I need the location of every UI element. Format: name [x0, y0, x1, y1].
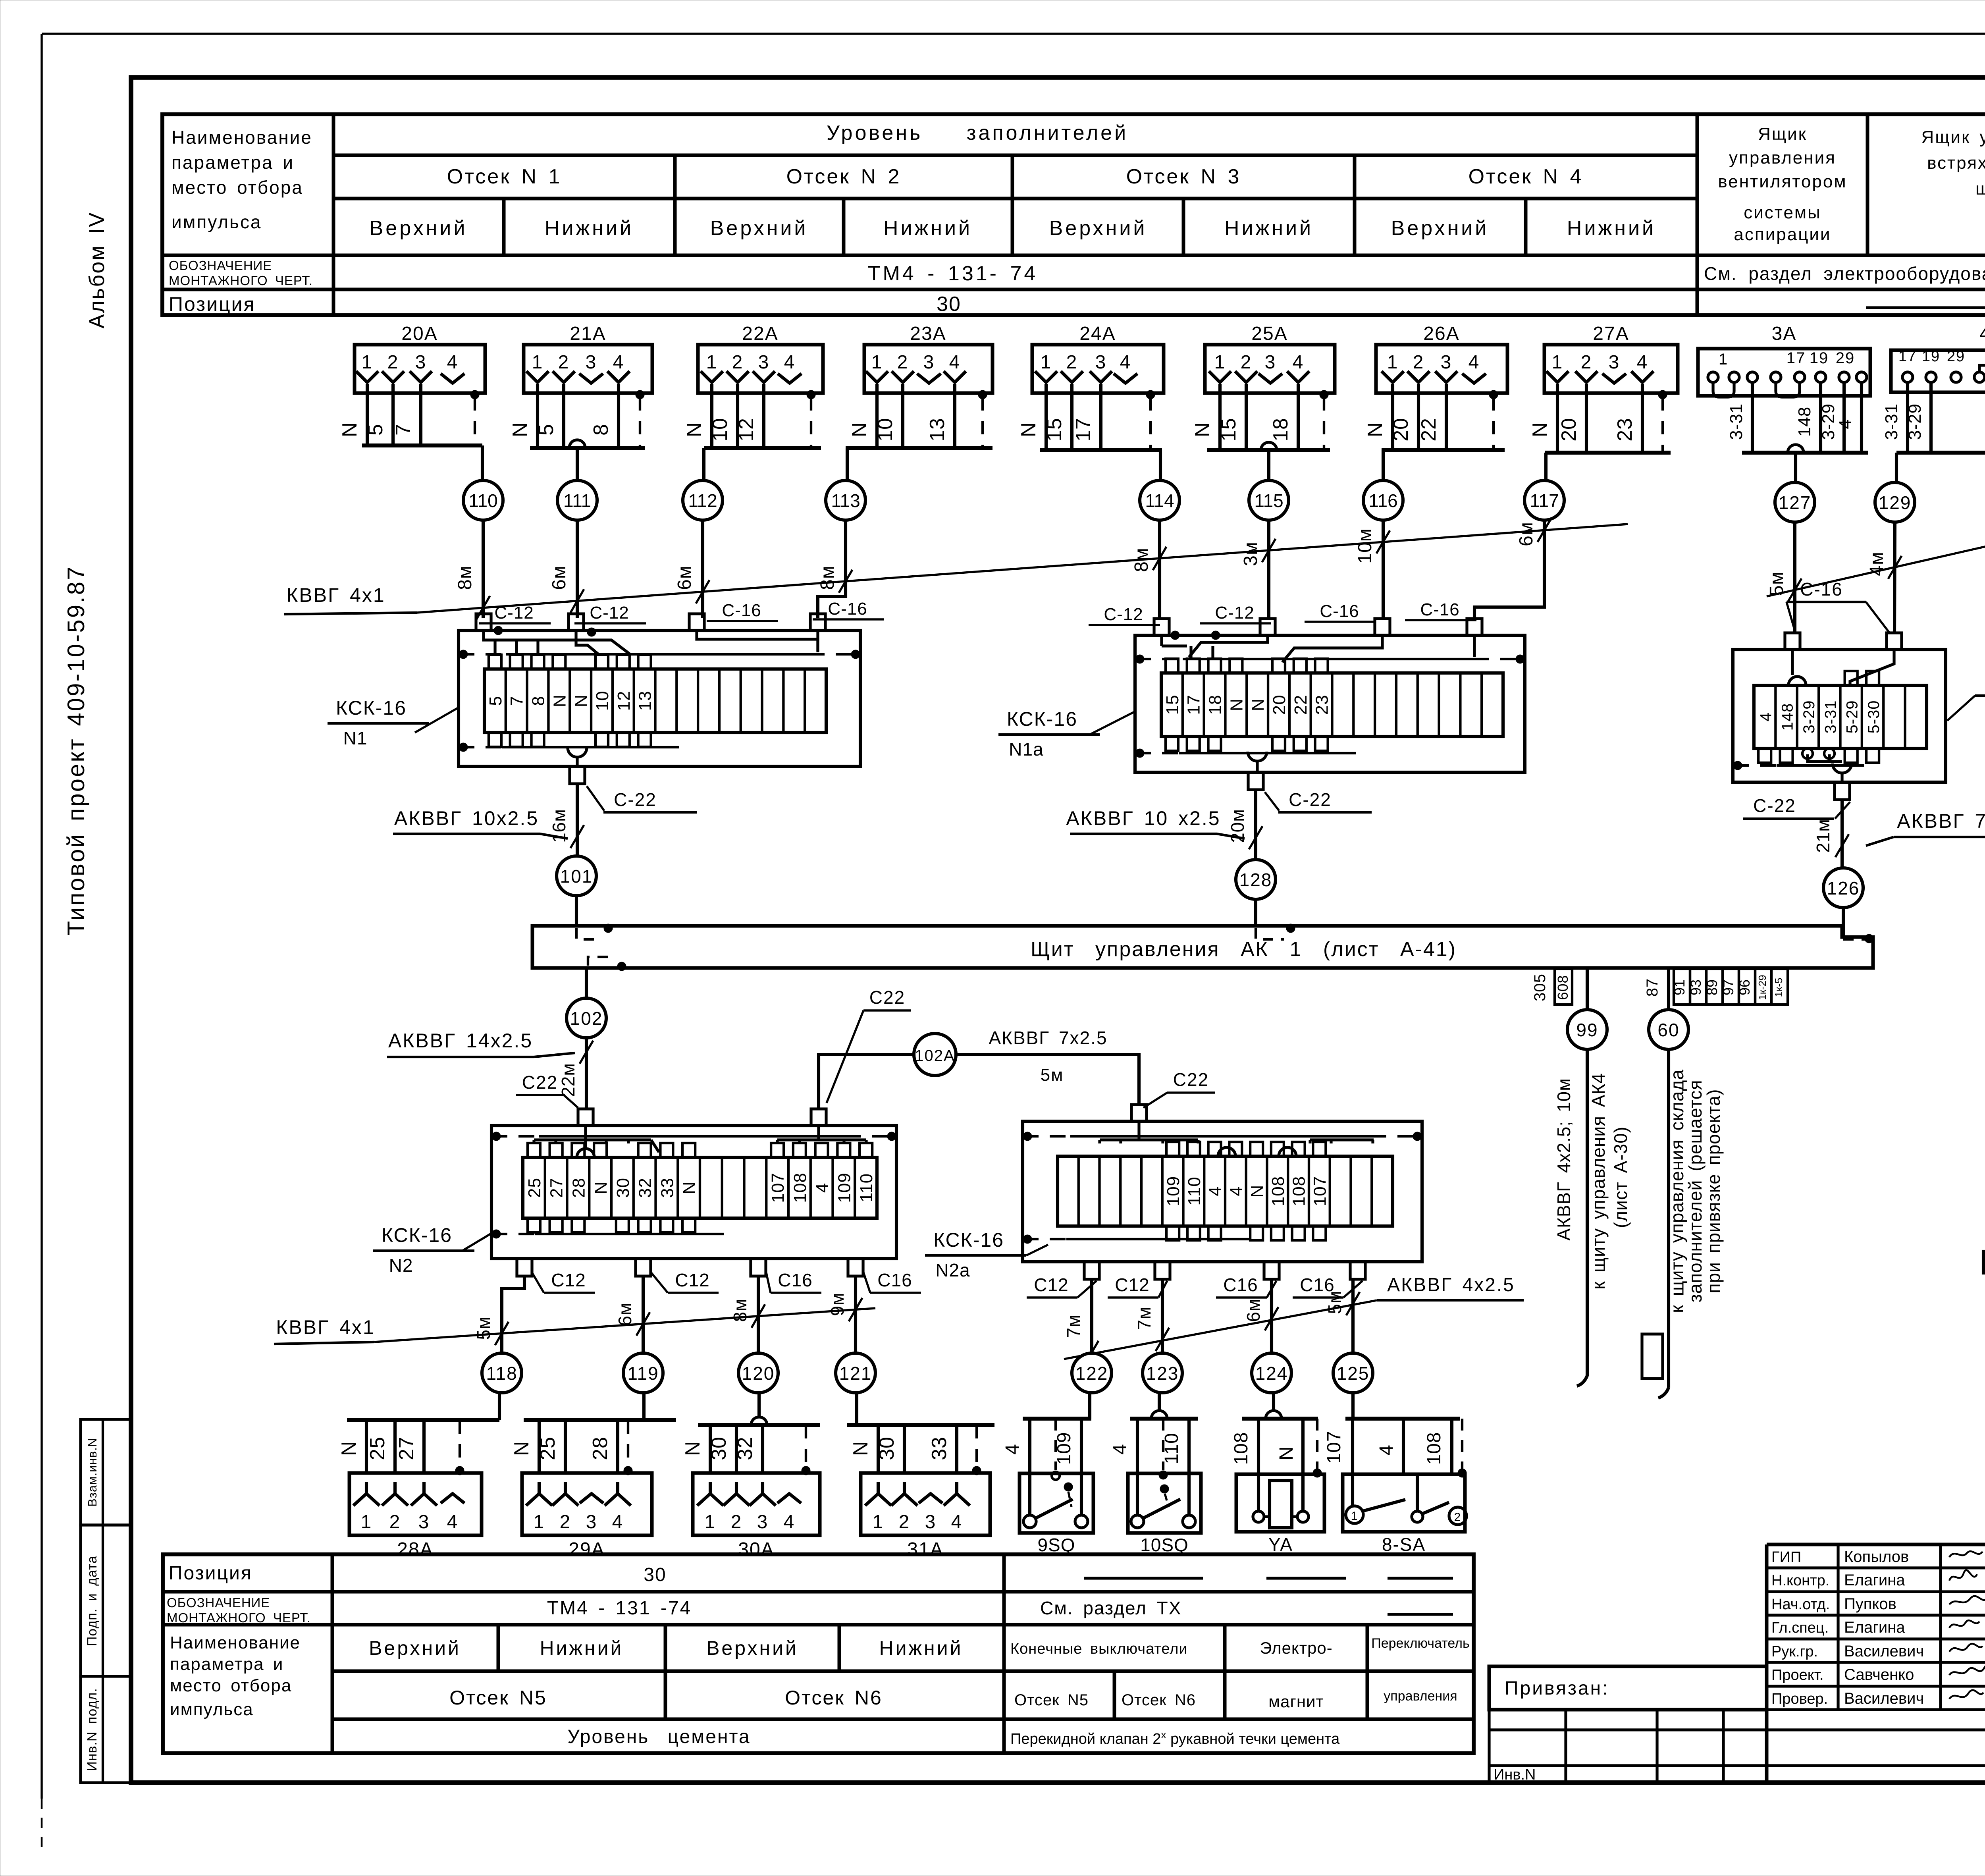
svg-text:10: 10	[709, 418, 732, 442]
svg-text:8м: 8м	[730, 1298, 750, 1322]
svg-text:С-16: С-16	[1320, 602, 1359, 621]
node 123	[1143, 1353, 1182, 1393]
svg-text:4: 4	[784, 1512, 795, 1533]
node 113	[826, 480, 865, 520]
connector box 30А	[693, 1473, 820, 1560]
title block: approvals column	[1771, 1548, 1985, 1707]
svg-text:Переключатель: Переключатель	[1371, 1636, 1469, 1651]
svg-text:115: 115	[1254, 490, 1283, 511]
svg-text:20: 20	[1389, 418, 1413, 442]
cable riser 29А	[642, 1393, 646, 1420]
svg-text:17: 17	[1898, 348, 1917, 365]
svg-text:Наименование: Наименование	[172, 127, 312, 148]
svg-text:См. раздел электрооборудован: См. раздел электрооборудования	[1704, 263, 1985, 284]
svg-text:аспирации: аспирации	[1734, 225, 1831, 244]
node 122	[1072, 1353, 1112, 1393]
cable riser 24А	[1159, 450, 1162, 480]
cable riser 25А	[1261, 442, 1277, 480]
labels along wire 60	[1667, 1069, 1724, 1313]
svg-text:17: 17	[1072, 418, 1095, 442]
svg-text:5м: 5м	[1766, 571, 1787, 596]
svg-text:Нижний: Нижний	[883, 217, 972, 240]
svg-text:С16: С16	[877, 1270, 912, 1290]
labels along wire 99	[1553, 1073, 1631, 1290]
svg-text:10: 10	[874, 418, 897, 442]
svg-text:Нижний: Нижний	[879, 1637, 963, 1659]
node 102А	[914, 1033, 956, 1076]
connector box 21А	[524, 323, 652, 395]
svg-text:29: 29	[1947, 348, 1965, 365]
wire 125 from junction box	[1324, 1279, 1360, 1353]
wire 102 to КСК-16 N2	[558, 1038, 593, 1108]
svg-text:N: N	[571, 694, 591, 708]
svg-text:28А: 28А	[397, 1539, 433, 1560]
svg-text:2: 2	[1413, 352, 1424, 373]
svg-text:3м: 3м	[1240, 542, 1261, 566]
svg-text:АКВВГ 14х2.5: АКВВГ 14х2.5	[388, 1030, 533, 1052]
svg-text:N: N	[550, 694, 569, 708]
svg-text:27А: 27А	[1593, 323, 1629, 344]
svg-text:121: 121	[839, 1363, 872, 1384]
connector box 28А	[349, 1473, 482, 1560]
dashed spare wire 25А	[1320, 390, 1328, 450]
svg-text:3: 3	[1609, 352, 1620, 373]
node 99	[1567, 1010, 1607, 1049]
svg-text:5: 5	[364, 424, 387, 436]
legend: blank rectangle symbol	[1983, 1251, 1985, 1311]
cable С-22 drop КСК-16 N1а	[1227, 789, 1372, 860]
svg-text:17: 17	[1786, 349, 1806, 367]
node 119	[623, 1353, 663, 1393]
svg-text:место отбора: место отбора	[170, 1676, 292, 1695]
svg-text:3: 3	[418, 1512, 430, 1533]
junction box КСК-16 N2 terminal strip	[523, 1157, 877, 1218]
wire tags 91 93 89 97 96 1к-29 1к-5	[1671, 969, 1788, 1005]
svg-text:107: 107	[1324, 1431, 1345, 1463]
svg-text:YA: YA	[1268, 1534, 1293, 1555]
cable label КВВГ 4х1 bottom	[274, 1308, 875, 1344]
svg-text:8: 8	[590, 424, 613, 436]
svg-text:N: N	[338, 422, 361, 438]
svg-text:Инв.N подл.: Инв.N подл.	[85, 1688, 100, 1771]
svg-text:N: N	[1276, 1446, 1297, 1460]
cable label АКВВГ 10х2.5 (N1а)	[1066, 807, 1245, 839]
svg-text:102А: 102А	[915, 1047, 955, 1064]
svg-text:Уровень заполнителей: Уровень заполнителей	[827, 121, 1128, 145]
junction box КСК-8 N3 terminal strip	[1754, 685, 1927, 748]
svg-text:3-29: 3-29	[1800, 700, 1818, 733]
svg-text:1: 1	[532, 352, 543, 373]
svg-text:место отбора: место отбора	[172, 177, 303, 198]
svg-text:6м: 6м	[674, 565, 695, 590]
svg-text:23: 23	[1613, 418, 1636, 442]
svg-text:12: 12	[735, 418, 758, 442]
svg-text:20: 20	[1557, 418, 1580, 442]
svg-text:1: 1	[1041, 352, 1052, 373]
svg-text:108: 108	[1231, 1432, 1252, 1465]
gland labels under КСК-16 N2а	[1027, 1274, 1363, 1298]
junction box КСК-16 N1а outline	[1135, 635, 1525, 772]
dashed spare wire 31А	[972, 1425, 981, 1475]
bottom glands КСК-16 N2	[517, 1259, 863, 1276]
svg-text:С16: С16	[1300, 1274, 1334, 1295]
wire 110 to junction box	[455, 520, 490, 619]
svg-text:Отсек N 1: Отсек N 1	[447, 165, 562, 188]
svg-text:Отсек N5: Отсек N5	[1014, 1691, 1089, 1709]
svg-text:заполнителей (решается: заполнителей (решается	[1685, 1080, 1706, 1302]
svg-text:4м: 4м	[1866, 551, 1887, 576]
svg-text:5: 5	[486, 696, 505, 706]
svg-text:109: 109	[1054, 1432, 1075, 1465]
label КСК-16 N2а	[925, 1229, 1048, 1280]
svg-text:Привязан:: Привязан:	[1505, 1678, 1609, 1699]
dashed spare wire 24А	[1146, 390, 1155, 450]
svg-text:89: 89	[1704, 979, 1720, 995]
svg-text:АКВВГ 10 х2.5: АКВВГ 10 х2.5	[1066, 807, 1220, 829]
selector switch 8-SA	[1324, 1393, 1467, 1555]
wires 26А to terminal bus	[1364, 393, 1505, 450]
svg-text:АКВВГ 4х2.5: АКВВГ 4х2.5	[1387, 1274, 1515, 1296]
svg-text:1: 1	[873, 1512, 884, 1533]
svg-text:30: 30	[875, 1436, 898, 1460]
svg-text:Проект.: Проект.	[1771, 1667, 1824, 1683]
svg-text:N: N	[849, 1441, 872, 1456]
svg-text:4: 4	[1120, 352, 1131, 373]
svg-text:4А-5А: 4А-5А	[1979, 323, 1985, 344]
cable riser 31А	[855, 1393, 858, 1425]
svg-text:3: 3	[1095, 352, 1107, 373]
svg-text:114: 114	[1145, 490, 1174, 511]
svg-text:30: 30	[613, 1178, 633, 1198]
svg-text:параметра и: параметра и	[172, 152, 294, 173]
svg-text:30: 30	[644, 1564, 666, 1585]
gland labels under КСК-16 N2	[532, 1270, 921, 1293]
node 121	[836, 1353, 875, 1393]
svg-text:Отсек N6: Отсек N6	[1122, 1691, 1196, 1709]
svg-text:22м: 22м	[558, 1063, 578, 1097]
wire 102А to КСК-16 N2а	[956, 1028, 1139, 1104]
top table header cell text	[172, 127, 312, 232]
junction box КСК-16 N1а earth rails	[1135, 631, 1525, 758]
svg-text:2: 2	[389, 1512, 401, 1533]
svg-text:4: 4	[1836, 419, 1855, 429]
svg-text:107: 107	[1310, 1176, 1330, 1206]
junction box КСК-16 N1а terminal strip	[1161, 673, 1503, 737]
label КСК-8 N3	[1947, 669, 1985, 721]
node 110	[463, 480, 503, 520]
svg-text:Елагина: Елагина	[1844, 1619, 1905, 1636]
svg-text:Верхний: Верхний	[710, 217, 808, 240]
svg-text:23А: 23А	[910, 323, 946, 344]
wires 21А to terminal bus	[509, 393, 645, 448]
junction box КСК-16 N2а outline	[1023, 1121, 1422, 1262]
svg-text:Взам.инв.N: Взам.инв.N	[85, 1438, 99, 1507]
svg-text:Верхний: Верхний	[706, 1637, 798, 1659]
dashed spare wire 21А	[636, 390, 644, 448]
project label	[63, 565, 89, 936]
svg-text:12: 12	[614, 691, 634, 711]
svg-text:25А: 25А	[1251, 323, 1287, 344]
wires 23А to terminal bus	[846, 393, 992, 448]
svg-text:Позиция: Позиция	[169, 1563, 252, 1584]
svg-text:параметра и: параметра и	[170, 1654, 283, 1674]
cable label АКВВГ 7х2.5 (N3)	[1866, 810, 1985, 846]
node 120	[738, 1353, 778, 1393]
svg-text:108: 108	[1289, 1176, 1309, 1206]
svg-text:116: 116	[1368, 490, 1397, 511]
dashed spare wire 28А	[455, 1420, 464, 1475]
svg-text:3: 3	[757, 1512, 769, 1533]
svg-text:15: 15	[1043, 418, 1066, 442]
svg-text:25: 25	[536, 1436, 559, 1460]
svg-text:8м: 8м	[1131, 548, 1152, 572]
svg-text:Типовой проект 409-10-59.87: Типовой проект 409-10-59.87	[63, 565, 89, 936]
svg-text:20: 20	[1270, 695, 1289, 715]
cable label АКВВГ 5х2.5	[1767, 520, 1985, 596]
top table see-electric note	[1704, 263, 1985, 284]
svg-text:119: 119	[627, 1363, 659, 1384]
svg-text:108: 108	[1424, 1432, 1445, 1465]
svg-text:к щиту управления АК4: к щиту управления АК4	[1588, 1073, 1609, 1290]
svg-text:15: 15	[1163, 695, 1182, 715]
node 101	[557, 856, 596, 926]
node 116	[1363, 480, 1403, 520]
connector box 29А	[522, 1473, 652, 1560]
svg-text:110: 110	[1185, 1176, 1204, 1205]
svg-text:91: 91	[1671, 979, 1688, 995]
connector box 23А	[864, 323, 992, 395]
svg-text:608: 608	[1555, 975, 1571, 1000]
svg-text:С-12: С-12	[1104, 605, 1143, 624]
label С22 (N2а gland)	[1143, 1069, 1215, 1108]
wire 120 from junction box	[730, 1276, 765, 1353]
svg-text:6м: 6м	[1516, 522, 1537, 546]
legend blank rectangle on wire 60 label	[1642, 1334, 1663, 1379]
bottom table header cell text	[167, 1563, 311, 1719]
stamp box Vzam.inv.N	[81, 1419, 131, 1525]
svg-text:33: 33	[657, 1178, 677, 1198]
wires 29А to terminal bus	[510, 1420, 676, 1473]
node dot 128 entry	[1256, 924, 1295, 939]
svg-text:123: 123	[1146, 1363, 1179, 1384]
svg-text:18: 18	[1206, 695, 1225, 715]
junction box КСК-16 N1 outline	[459, 630, 860, 766]
svg-text:Ящик управления: Ящик управления	[1921, 127, 1985, 147]
svg-text:Нач.отд.: Нач.отд.	[1771, 1596, 1830, 1613]
svg-text:ГИП: ГИП	[1771, 1549, 1801, 1566]
svg-text:4: 4	[949, 352, 961, 373]
wires 20А to terminal bus	[338, 393, 482, 445]
svg-text:С-16: С-16	[722, 601, 761, 620]
svg-text:117: 117	[1530, 490, 1559, 511]
top table blank mark	[1866, 306, 1985, 309]
wire 112 to junction box	[674, 520, 709, 618]
svg-text:N2а: N2а	[935, 1260, 970, 1280]
svg-text:19: 19	[1922, 348, 1940, 365]
svg-text:Верхний: Верхний	[1391, 217, 1489, 240]
svg-text:5м: 5м	[1041, 1065, 1064, 1085]
svg-text:Нижний: Нижний	[545, 217, 634, 240]
svg-text:1: 1	[362, 352, 373, 373]
svg-text:3: 3	[758, 352, 770, 373]
svg-text:1: 1	[1214, 352, 1226, 373]
svg-text:Савченко: Савченко	[1844, 1666, 1914, 1683]
svg-text:108: 108	[1268, 1176, 1288, 1206]
svg-text:Наименование: Наименование	[170, 1633, 301, 1652]
cable С-22 drop КСК-8	[1743, 795, 1850, 868]
svg-text:Копылов: Копылов	[1844, 1548, 1909, 1566]
svg-text:ТМ4 - 131 -74: ТМ4 - 131 -74	[547, 1598, 692, 1619]
dashed spare wire 27А	[1658, 390, 1667, 453]
wire 114 to junction box	[1131, 520, 1166, 618]
svg-text:1к-5: 1к-5	[1773, 978, 1785, 997]
svg-text:17: 17	[1184, 695, 1204, 715]
wire 115 to junction box	[1240, 520, 1276, 618]
svg-text:8: 8	[529, 696, 548, 706]
wire 116 to junction box	[1355, 520, 1390, 618]
top parameter table	[162, 114, 1985, 315]
svg-text:20А: 20А	[401, 323, 437, 344]
svg-text:25: 25	[525, 1178, 544, 1198]
svg-text:С-16: С-16	[1800, 579, 1843, 600]
svg-text:3: 3	[415, 352, 427, 373]
svg-text:КВВГ 4х1: КВВГ 4х1	[276, 1316, 375, 1338]
svg-text:N: N	[848, 422, 871, 438]
svg-text:97: 97	[1720, 979, 1736, 995]
junction box КСК-16 N1а terminal stubs	[1166, 659, 1328, 772]
svg-text:С16: С16	[778, 1270, 812, 1290]
svg-text:29: 29	[1836, 349, 1855, 367]
svg-text:108: 108	[790, 1172, 810, 1203]
svg-text:Гл.спец.: Гл.спец.	[1771, 1620, 1829, 1636]
svg-text:4: 4	[1226, 1186, 1246, 1196]
junction box КСК-16 N1а internal wiring	[1162, 635, 1474, 662]
svg-text:С-12: С-12	[590, 603, 629, 623]
junction box КСК-16 N1 earth rails	[459, 626, 860, 752]
svg-text:управления: управления	[1729, 148, 1836, 168]
svg-text:110: 110	[857, 1173, 876, 1202]
svg-text:ОБОЗНАЧЕНИЕ: ОБОЗНАЧЕНИЕ	[167, 1595, 270, 1610]
svg-text:N: N	[591, 1181, 611, 1194]
svg-text:N: N	[683, 422, 706, 438]
svg-text:6м: 6м	[549, 565, 570, 590]
svg-text:Позиция: Позиция	[169, 293, 256, 315]
svg-text:Альбом IV: Альбом IV	[85, 212, 109, 329]
svg-text:25: 25	[366, 1436, 389, 1460]
node dot 101 entry	[576, 924, 613, 939]
junction box КСК-16 N1 terminal strip	[484, 669, 826, 733]
svg-text:27: 27	[547, 1178, 567, 1198]
svg-text:15: 15	[1217, 418, 1240, 442]
svg-text:1: 1	[706, 352, 718, 373]
svg-text:АКВВГ 7х2.5: АКВВГ 7х2.5	[989, 1028, 1107, 1048]
svg-text:120: 120	[742, 1363, 775, 1384]
svg-text:С-22: С-22	[1753, 795, 1796, 816]
svg-text:Пупков: Пупков	[1844, 1595, 1896, 1613]
junction box КСК-16 N2 earth rails	[491, 1132, 896, 1238]
svg-text:управления: управления	[1384, 1689, 1457, 1704]
svg-text:1: 1	[534, 1512, 545, 1533]
svg-text:8-SA: 8-SA	[1382, 1534, 1426, 1555]
wires 31А to terminal bus	[847, 1425, 994, 1473]
svg-text:148: 148	[1795, 407, 1814, 437]
svg-text:АКВВГ 10х2.5: АКВВГ 10х2.5	[394, 807, 539, 829]
svg-text:2: 2	[560, 1512, 571, 1533]
svg-text:125: 125	[1337, 1363, 1370, 1384]
connector box 20А	[355, 323, 485, 395]
svg-text:Инв.N: Инв.N	[1494, 1766, 1536, 1783]
svg-text:3-29: 3-29	[1819, 403, 1838, 440]
svg-text:113: 113	[831, 490, 860, 511]
svg-text:5-30: 5-30	[1865, 700, 1883, 733]
junction box КСК-16 N2а earth rails	[1023, 1132, 1422, 1244]
connector box 31А	[861, 1473, 990, 1560]
svg-text:Уровень цемента: Уровень цемента	[567, 1726, 750, 1747]
cable riser 21А	[569, 440, 585, 480]
limit switch 10SQ	[1110, 1393, 1201, 1555]
cable С-22 drop КСК-16 N1	[549, 784, 697, 856]
svg-text:1: 1	[1719, 351, 1728, 368]
attached box Привязан	[1489, 1666, 1985, 1783]
svg-text:22: 22	[1291, 695, 1310, 715]
junction box КСК-16 N2 outline	[491, 1126, 896, 1259]
bottom table values	[369, 1564, 963, 1747]
svg-text:Отсек N 2: Отсек N 2	[786, 165, 901, 188]
cable label АКВВГ 4х2.5	[1064, 1274, 1524, 1359]
svg-text:N: N	[1191, 422, 1214, 438]
node 102	[567, 998, 606, 1038]
svg-text:4: 4	[1293, 352, 1304, 373]
node 125	[1333, 1353, 1373, 1393]
junction box КСК-8 N3 internal wiring	[1792, 650, 1894, 762]
svg-text:18: 18	[1269, 418, 1292, 442]
node 129	[1875, 482, 1915, 522]
node 127	[1775, 482, 1815, 522]
svg-text:2: 2	[387, 352, 399, 373]
junction box КСК-16 N2 internal wiring	[534, 1126, 866, 1152]
svg-text:126: 126	[1827, 878, 1860, 898]
svg-text:2: 2	[1066, 352, 1078, 373]
svg-text:КСК-16: КСК-16	[1007, 708, 1077, 730]
junction box КСК-8 N3 cable glands	[1785, 633, 1902, 800]
wire 60 trunk	[1644, 968, 1669, 1398]
wire 102 from bus	[585, 968, 588, 998]
node 118	[482, 1353, 522, 1393]
bottom glands КСК-16 N2а	[1084, 1262, 1365, 1279]
svg-text:Нижний: Нижний	[1224, 217, 1313, 240]
svg-text:3: 3	[1441, 352, 1452, 373]
svg-text:21м: 21м	[1813, 819, 1833, 853]
connector box 26А	[1376, 323, 1507, 395]
svg-text:4: 4	[447, 352, 459, 373]
label КСК-16 N1	[328, 697, 459, 748]
title block grid	[1767, 1544, 1985, 1783]
svg-text:С12: С12	[1115, 1274, 1149, 1295]
connector box 24А	[1032, 323, 1164, 395]
junction box КСК-16 N2а terminal strip	[1058, 1156, 1393, 1226]
svg-text:С-16: С-16	[828, 599, 867, 619]
svg-text:9SQ: 9SQ	[1037, 1535, 1075, 1555]
junction box КСК-8 N3 earth rails	[1733, 761, 1864, 770]
svg-text:N: N	[680, 1181, 699, 1194]
wire 119 from junction box	[615, 1276, 650, 1353]
svg-text:КСК-16: КСК-16	[933, 1229, 1004, 1251]
svg-text:С16: С16	[1223, 1274, 1258, 1295]
svg-text:129: 129	[1879, 492, 1912, 513]
junction box КСК-16 N1 internal wiring	[484, 630, 818, 655]
svg-text:96: 96	[1736, 979, 1753, 995]
svg-text:3-31: 3-31	[1822, 700, 1839, 733]
